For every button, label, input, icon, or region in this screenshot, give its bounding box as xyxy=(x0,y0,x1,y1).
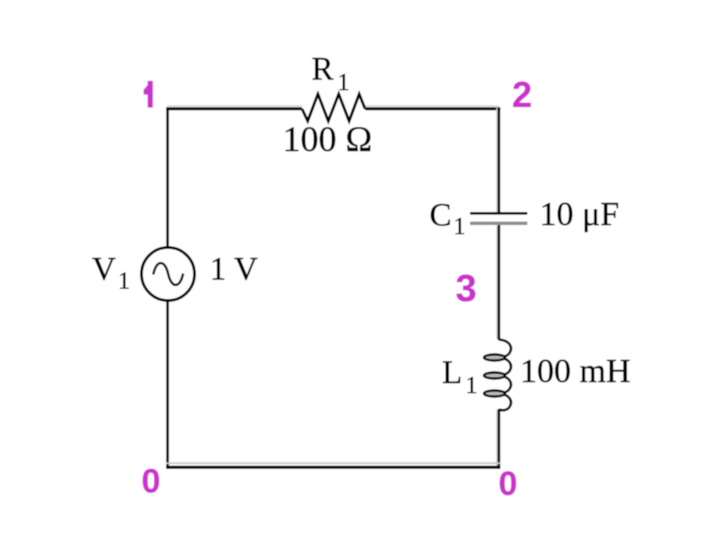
wire: left vertical lower segment (V1 to node 0) xyxy=(166,301,169,469)
svg-text:100 mH: 100 mH xyxy=(520,353,631,390)
capacitor C1 top plate xyxy=(470,212,527,215)
svg-text:R: R xyxy=(312,52,334,88)
wire: right vertical segment (C1 to L1, node 3) xyxy=(498,225,501,341)
svg-text:1: 1 xyxy=(338,70,350,96)
inductor L1 coil xyxy=(484,340,511,411)
svg-text:100 Ω: 100 Ω xyxy=(283,119,373,159)
node 1 label xyxy=(144,81,153,108)
wire: top horizontal gray artifact line xyxy=(167,105,499,107)
svg-text:1: 1 xyxy=(454,214,466,240)
svg-text:1 V: 1 V xyxy=(210,251,258,287)
wire: top-right horizontal segment (R1 to node 2) xyxy=(365,107,500,110)
svg-text:2: 2 xyxy=(512,74,532,115)
wire: left vertical upper segment (node 1 to V1) xyxy=(166,108,169,248)
wire: right vertical segment (node 2 to C1) xyxy=(498,108,501,214)
svg-text:0: 0 xyxy=(142,463,161,501)
capacitor C1 bottom plate xyxy=(470,222,527,225)
wire: top-left horizontal segment (node 1 to R1) xyxy=(166,107,302,110)
svg-text:10 μF: 10 μF xyxy=(540,196,620,233)
resistor R1 zigzag xyxy=(302,94,365,121)
wire: right vertical segment (L1 to node 0) xyxy=(498,409,501,469)
wire: bottom horizontal segment (node 0 to node 0) xyxy=(166,466,500,469)
svg-text:C: C xyxy=(430,197,452,233)
svg-text:3: 3 xyxy=(456,268,477,310)
wire: bottom horizontal gray artifact line xyxy=(166,462,500,464)
svg-text:L: L xyxy=(442,355,462,391)
voltage source V1 circle xyxy=(142,248,195,301)
svg-text:V: V xyxy=(92,251,116,287)
svg-text:1: 1 xyxy=(118,268,130,294)
voltage source V1 sine wave xyxy=(153,263,183,285)
svg-text:0: 0 xyxy=(499,465,518,503)
svg-text:1: 1 xyxy=(466,373,478,399)
wire: right vertical gray artifact line xyxy=(496,108,498,466)
